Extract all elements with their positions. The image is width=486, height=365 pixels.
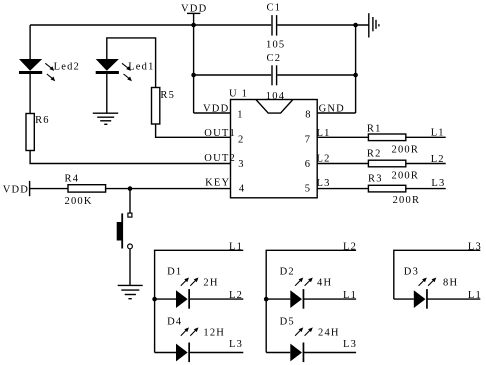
wire row 5 to R3 [317, 188, 368, 190]
LED D5 [290, 343, 304, 363]
capacitor C2 [272, 65, 277, 85]
svg-text:R4: R4 [65, 174, 80, 185]
ground (top right, rotated) [369, 13, 379, 37]
node junction dot rail1/left vertical [191, 23, 196, 28]
resistor R5 [152, 88, 160, 125]
wire OUT row 7 to R1 [317, 136, 368, 138]
wire GND pin 8 to right vertical [317, 112, 355, 114]
LED Led1 arrows [122, 63, 132, 81]
wire R5 bottom to OUT1 pin 2 [156, 124, 231, 137]
wire second rail left segment (to C2 left plate) [194, 74, 272, 76]
wire R1 to L1 right [406, 136, 446, 138]
svg-text:D3: D3 [404, 267, 419, 278]
wire Led2 anode from top rail [29, 25, 31, 59]
node junction dot rail1/right vertical [353, 23, 358, 28]
svg-text:2H: 2H [203, 278, 218, 289]
wire row 6 to R2 [317, 163, 368, 165]
wire switch bottom terminal to ground [129, 249, 131, 285]
wire Led2 cathode to R6 [29, 74, 31, 114]
wire D1 cathode to L2 [189, 298, 243, 300]
svg-text:7: 7 [305, 135, 311, 146]
svg-text:L3: L3 [229, 339, 243, 350]
svg-text:OUT2: OUT2 [204, 153, 236, 164]
LED D4 [176, 343, 190, 363]
wire D3 anode [394, 298, 414, 300]
wire D1 anode [155, 298, 176, 300]
node junction dot rail2/right vertical [353, 73, 358, 78]
LED D1 [176, 289, 190, 309]
svg-text:KEY: KEY [205, 178, 230, 189]
LED D2 arrows [295, 278, 313, 286]
wire top rail right segment (C1 right plate to ground) [277, 24, 369, 26]
node junction dot group2 [264, 297, 269, 302]
LED group 3 top wire (L3) [394, 250, 481, 299]
wire D4 anode [155, 352, 176, 354]
svg-text:U 1: U 1 [229, 89, 248, 100]
wire R6 bottom to OUT2 pin 3 [30, 151, 230, 164]
svg-text:6: 6 [305, 159, 311, 170]
node VDD terminal (top) [187, 12, 200, 14]
op-amp U1 notch [256, 100, 293, 114]
svg-text:4H: 4H [317, 278, 332, 289]
svg-text:24H: 24H [318, 328, 340, 339]
LED Led1 [96, 59, 119, 74]
wire D4 cathode to L3 [189, 352, 243, 354]
svg-text:1: 1 [237, 110, 243, 121]
wire VDD vertical left rail [193, 13, 195, 113]
wire D2 cathode to L1 [303, 298, 356, 300]
svg-text:L1: L1 [229, 242, 243, 253]
wire D5 cathode to L3 [303, 352, 356, 354]
svg-text:R5: R5 [160, 90, 175, 101]
svg-text:200K: 200K [65, 196, 93, 207]
svg-text:L2: L2 [343, 242, 357, 253]
resistor R4 [68, 185, 106, 192]
LED group 1 top wire (L1) [155, 250, 244, 352]
resistor R3 [368, 185, 405, 192]
wire R3 to L3 right [406, 188, 446, 190]
capacitor C1 [272, 15, 277, 35]
LED Led2 [19, 59, 42, 74]
svg-text:200R: 200R [393, 195, 421, 206]
ground (below switch) [118, 285, 143, 298]
svg-text:R3: R3 [368, 174, 383, 185]
svg-text:D1: D1 [167, 267, 182, 278]
svg-text:L3: L3 [317, 178, 331, 189]
svg-text:Led1: Led1 [128, 62, 154, 73]
svg-text:D5: D5 [280, 317, 295, 328]
wire second rail right segment (C2 right plate to right vertical) [277, 74, 355, 76]
svg-text:D2: D2 [280, 267, 295, 278]
LED D5 arrows [295, 327, 313, 335]
LED D4 arrows [181, 327, 199, 335]
wire VDD pin 1 from left rail [194, 112, 231, 114]
LED D3 arrows [419, 278, 437, 286]
svg-text:5: 5 [305, 184, 311, 195]
wire R4 to KEY pin 4 [106, 188, 231, 190]
node junction dot KEY/switch [128, 186, 133, 191]
svg-text:8: 8 [305, 110, 311, 121]
svg-text:104: 104 [266, 91, 285, 102]
svg-text:L1: L1 [343, 290, 357, 301]
wire KEY row: VDD tick to R4 [30, 188, 68, 190]
svg-text:R6: R6 [35, 115, 50, 126]
svg-text:L2: L2 [431, 154, 445, 165]
svg-text:Led2: Led2 [54, 62, 80, 73]
svg-text:C2: C2 [267, 53, 282, 64]
node VDD terminal (bottom left) [29, 181, 31, 196]
wire D5 anode [266, 352, 290, 354]
svg-text:L3: L3 [343, 339, 357, 350]
svg-text:GND: GND [319, 104, 345, 115]
switch S1 pushbutton [117, 213, 132, 249]
svg-text:L3: L3 [431, 178, 445, 189]
resistor R6 [26, 114, 34, 151]
svg-text:12H: 12H [203, 328, 225, 339]
LED D2 [290, 289, 304, 309]
wire junction to switch top terminal [129, 189, 131, 214]
wire Led1 anode up and bridge to R5 top [107, 38, 156, 88]
svg-text:VDD: VDD [181, 4, 207, 15]
svg-text:D4: D4 [167, 317, 182, 328]
svg-text:L3: L3 [468, 242, 482, 253]
svg-text:4: 4 [239, 184, 245, 195]
op-amp U1 IC body [231, 100, 318, 198]
svg-text:3: 3 [238, 159, 244, 170]
svg-text:R1: R1 [367, 124, 382, 135]
LED D3 [414, 289, 428, 309]
wire R2 to L2 right [406, 163, 446, 165]
LED group 2 top wire (L2) [266, 250, 356, 352]
svg-text:VDD: VDD [203, 104, 229, 115]
resistor R1 [368, 134, 405, 141]
svg-text:2: 2 [238, 135, 244, 146]
wire Led1 cathode to ground [106, 74, 108, 113]
svg-text:L1: L1 [317, 128, 331, 139]
svg-text:200R: 200R [392, 171, 420, 182]
LED D1 arrows [181, 278, 199, 286]
LED Led2 arrows [45, 63, 55, 81]
resistor R2 [368, 160, 405, 167]
svg-text:L2: L2 [229, 290, 243, 301]
node junction dot rail2/left vertical [191, 73, 196, 78]
svg-text:8H: 8H [443, 278, 458, 289]
svg-text:200R: 200R [392, 145, 420, 156]
svg-text:L2: L2 [317, 154, 331, 165]
svg-text:C1: C1 [267, 3, 282, 14]
wire D3 cathode to L1 [427, 298, 480, 300]
svg-text:L1: L1 [431, 128, 445, 139]
svg-text:L1: L1 [468, 290, 482, 301]
wire right vertical (top rail to GND pin) [355, 25, 357, 113]
wire top rail left segment (to C1 left plate) [30, 24, 271, 26]
svg-text:R2: R2 [367, 149, 382, 160]
svg-text:OUT1: OUT1 [204, 128, 236, 139]
svg-text:105: 105 [266, 40, 285, 51]
wire D2 anode [266, 298, 290, 300]
ground (under Led1) [93, 113, 118, 124]
svg-text:VDD: VDD [3, 185, 29, 196]
node junction dot group1 [152, 297, 157, 302]
